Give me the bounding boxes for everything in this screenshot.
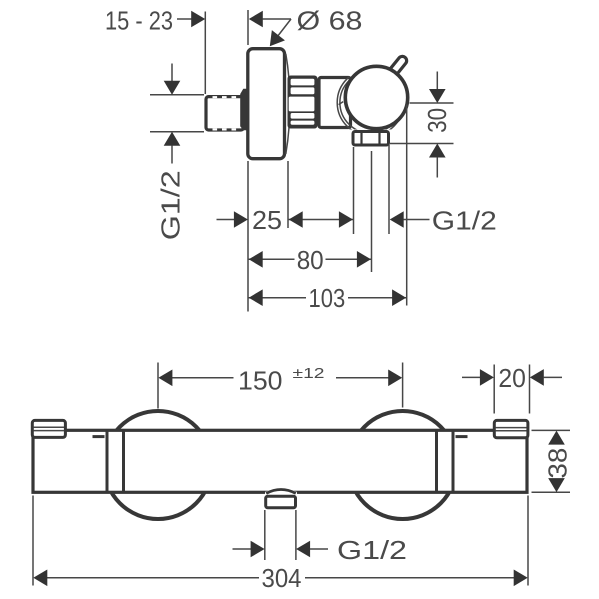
svg-text:15 - 23: 15 - 23 bbox=[105, 6, 173, 36]
svg-text:20: 20 bbox=[498, 363, 526, 393]
left wall escutcheon circle bbox=[104, 411, 212, 519]
hose outlet stub bbox=[265, 489, 297, 508]
svg-text:25: 25 bbox=[252, 205, 282, 235]
svg-text:G1/2: G1/2 bbox=[337, 535, 407, 565]
dim 30 right bbox=[390, 72, 454, 178]
svg-text:80: 80 bbox=[297, 245, 324, 275]
escutcheon (wall rosette, side) bbox=[248, 49, 290, 159]
svg-text:304: 304 bbox=[262, 563, 302, 593]
ribbed connector nut bbox=[288, 76, 318, 129]
svg-text:G1/2: G1/2 bbox=[432, 205, 497, 235]
dim 80 row bbox=[248, 245, 372, 275]
dim 103 row bbox=[248, 283, 407, 313]
svg-text:38: 38 bbox=[542, 448, 572, 479]
dim 25 row bbox=[217, 205, 497, 235]
union collar neck bbox=[240, 89, 247, 131]
right wall escutcheon circle bbox=[349, 411, 457, 519]
svg-text:103: 103 bbox=[309, 283, 346, 313]
top view: wall union block bbox=[206, 96, 244, 130]
extension lines top view bbox=[248, 10, 407, 312]
left supply cap bbox=[32, 420, 65, 437]
svg-text:Ø 68: Ø 68 bbox=[297, 5, 363, 35]
bottom outlet nut (side view) bbox=[353, 132, 389, 146]
handle lever bbox=[387, 55, 408, 78]
thermostat handle circle bbox=[345, 66, 407, 128]
dim G1/2 left bbox=[150, 64, 204, 241]
dim Ø68 leader bbox=[270, 5, 363, 46]
dim 20 bbox=[462, 363, 562, 414]
mixer bar body bbox=[33, 430, 527, 492]
valve body bbox=[319, 78, 351, 128]
dim 38 bbox=[532, 430, 573, 492]
dim 304 bbox=[33, 496, 528, 594]
svg-text:±12: ±12 bbox=[293, 365, 325, 382]
svg-text:G1/2: G1/2 bbox=[156, 170, 186, 240]
dim G1/2 bottom bbox=[233, 510, 408, 565]
svg-text:30: 30 bbox=[422, 108, 452, 133]
dim 150 +-12 bbox=[158, 363, 403, 409]
dim 15-23 bbox=[105, 6, 291, 94]
right supply cap bbox=[494, 420, 528, 437]
svg-text:150: 150 bbox=[238, 365, 283, 395]
